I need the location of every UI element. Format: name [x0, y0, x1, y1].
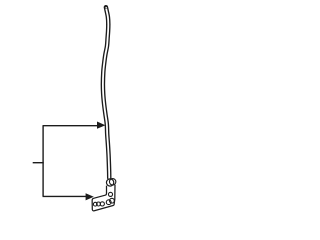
boss (pivot at rod end) large circle: [106, 179, 113, 186]
callout top horizontal line: [43, 125, 98, 127]
bracket body (L-shaped mounting bracket with foot): [92, 185, 115, 211]
foot hole D: [106, 200, 111, 205]
callout left tick: [33, 162, 44, 164]
rod tip (rounded hook end): [106, 7, 108, 24]
small hole upper: [108, 192, 112, 196]
rod (long curved link rod): [103, 8, 109, 179]
boss small circle: [109, 179, 115, 185]
foot hole E: [110, 198, 115, 203]
callout vertical line: [42, 126, 44, 197]
foot hole C: [100, 202, 104, 206]
callout bottom horizontal line: [43, 195, 86, 197]
foot hole A: [93, 202, 97, 206]
callout bottom arrowhead: [86, 193, 94, 200]
callout top arrowhead: [97, 122, 105, 129]
foot hole B: [97, 202, 101, 206]
